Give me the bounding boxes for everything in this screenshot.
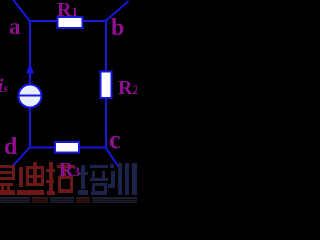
resistor R2 label [118,78,139,98]
wire left vertical current source to node d [29,107,31,148]
wire left vertical node a to current source [29,21,31,85]
resistor R1 body [58,17,83,28]
watermark slogan line 2 (very dim) [0,197,137,203]
resistor R2 body [101,72,112,99]
node c label [109,127,121,153]
wire diagonal out of node d [11,147,30,168]
current source is arrow [26,63,34,74]
wire right vertical R2 to node c [105,97,107,148]
current source label is [0,77,8,96]
watermark char 5 xun (dark navy) [108,163,137,195]
node a label [9,15,21,38]
resistor R1 label [57,0,78,20]
watermark char 1 yi (dark red, clipped at left) [0,165,15,195]
resistor R3 label [59,160,80,180]
wire diagonal out of node c [106,148,122,172]
wire top from R1 to node b [82,20,106,22]
wire bottom node d to R3 [30,147,56,149]
wire bottom R3 to node c [78,147,106,149]
wire top from node a to R1 [30,20,58,22]
node b label [111,16,124,40]
resistor R3 body [55,142,79,153]
current source is bar [19,95,42,97]
watermark char 3 tuo (dark red) [46,162,75,195]
current source is circle [19,85,42,108]
watermark char 4 pei (dark navy) [78,165,108,195]
node d label [4,135,17,159]
wire diagonal out of node b [106,1,129,21]
wire diagonal into node a [14,0,31,22]
wire right vertical node b to R2 [105,20,107,72]
watermark char 2 di (dark red) [17,162,44,195]
